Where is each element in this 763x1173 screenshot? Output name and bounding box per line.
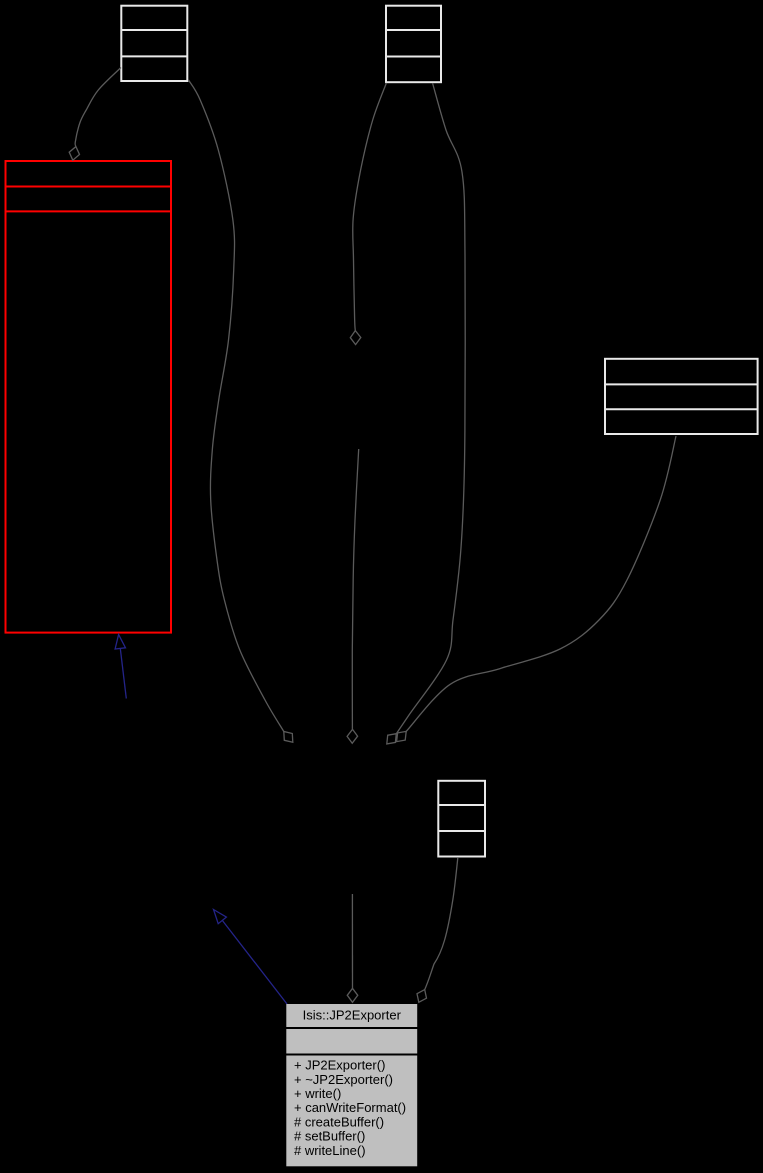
class node A (top-left, empty label) xyxy=(121,6,187,81)
open diamond at N2 top-left xyxy=(284,732,293,743)
svg-text:+ ~JP2Exporter(): + ~JP2Exporter() xyxy=(294,1072,393,1087)
class node E (small box above JP2Exporter) xyxy=(438,781,485,857)
open diamond at N2 (left of pair) xyxy=(387,734,397,744)
svg-text:+ JP2Exporter(): + JP2Exporter() xyxy=(294,1058,385,1073)
svg-text:+ write(): + write() xyxy=(294,1086,341,1101)
open diamond at N2 (right of pair) xyxy=(397,731,407,741)
svg-text:Isis::JP2Exporter: Isis::JP2Exporter xyxy=(303,1008,402,1023)
aggregation edge N1 to N2 (vertical) xyxy=(352,449,358,729)
class node C (right, empty label) xyxy=(605,359,758,434)
class node B (top-middle, empty label) xyxy=(386,6,441,83)
aggregation edge C to N2 xyxy=(406,436,676,731)
aggregation edge B to hidden node N1 xyxy=(353,83,387,331)
open diamond at JP2Exporter top-right xyxy=(417,990,427,1003)
svg-text:# createBuffer(): # createBuffer() xyxy=(294,1114,384,1129)
open diamond at N2 top (middle) xyxy=(347,729,358,743)
class node F Isis::JP2Exporter (gray, current) xyxy=(286,1004,418,1166)
open triangle arrowhead at N3 xyxy=(214,910,227,924)
open diamond at N1 top xyxy=(350,331,361,345)
class node D (red truncated box, left) xyxy=(6,161,172,633)
svg-text:+ canWriteFormat(): + canWriteFormat() xyxy=(294,1100,406,1115)
aggregation edge N2 to JP2Exporter (vertical) xyxy=(351,894,353,988)
svg-text:# writeLine(): # writeLine() xyxy=(294,1143,366,1158)
inheritance edge JP2Exporter to hidden parent N3 (blue) xyxy=(222,920,287,1004)
inheritance edge N3 to D (blue) xyxy=(120,648,126,698)
aggregation edge B to N2 (right bow) xyxy=(396,83,465,734)
open diamond at D top xyxy=(69,147,79,161)
open diamond at JP2Exporter top xyxy=(347,988,358,1002)
aggregation edge A to D xyxy=(75,68,121,147)
aggregation edge A to hidden node N2 xyxy=(189,80,284,732)
aggregation edge E to JP2Exporter xyxy=(425,858,458,990)
svg-text:# setBuffer(): # setBuffer() xyxy=(294,1129,365,1144)
open triangle arrowhead at D bottom xyxy=(115,635,125,650)
